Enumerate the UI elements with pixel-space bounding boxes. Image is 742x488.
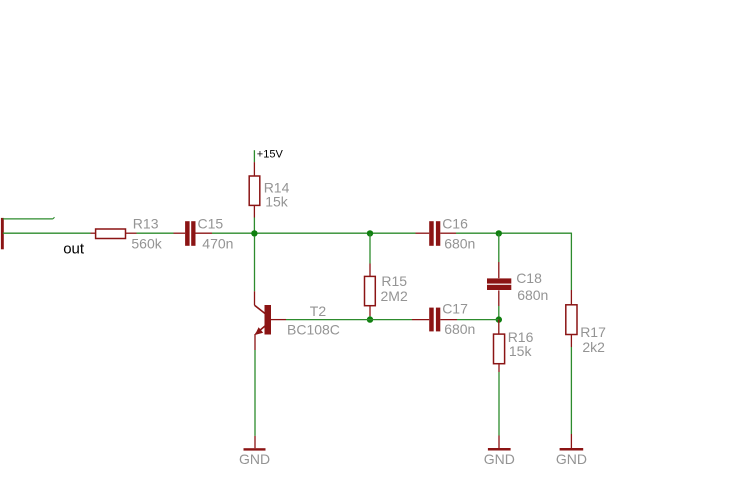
resistor R13 [96,229,126,239]
resistor R16 [494,334,505,364]
capacitor C18 [487,278,511,290]
svg-text:2M2: 2M2 [381,288,408,304]
node E junction [496,316,502,322]
svg-text:680n: 680n [444,321,475,337]
capacitor C17 [412,308,457,332]
svg-text:470n: 470n [202,236,233,252]
svg-text:560k: 560k [131,236,162,252]
wire C15 to C16 [212,232,416,234]
ground GND3 [560,448,584,451]
wire corner to R17 [570,233,572,305]
wire node B to R15 [369,233,371,276]
node A junction [251,230,257,236]
svg-text:15k: 15k [265,194,289,210]
wire stub top-left [3,217,55,219]
svg-text:R17: R17 [580,324,606,340]
resistor R15 [365,276,376,305]
svg-text:BC108C: BC108C [287,322,340,338]
svg-text:T2: T2 [310,303,327,319]
svg-text:R15: R15 [381,273,407,289]
transistor T2 [255,236,287,350]
wire main left [3,232,91,234]
node B junction [367,230,373,236]
connector pad left edge [1,218,4,249]
svg-text:15k: 15k [509,343,533,359]
svg-text:+15V: +15V [257,148,284,160]
svg-text:GND: GND [239,451,270,467]
svg-text:C18: C18 [516,270,542,286]
svg-text:680n: 680n [444,236,475,252]
+15V supply pin [253,150,255,176]
wire C17 to node E [457,319,499,321]
ground GND2 [488,448,511,451]
resistor R17 [566,305,577,335]
svg-text:C17: C17 [442,300,468,316]
capacitor C15 [174,221,213,246]
svg-text:out: out [63,241,85,258]
wire C18 to node D [498,290,500,319]
capacitor C16 [416,221,457,246]
resistor R13 pins [91,232,137,234]
svg-text:C16: C16 [442,215,468,231]
wire R17 to ground [570,335,572,449]
svg-text:GND: GND [484,451,515,467]
ground GND1 [244,448,266,450]
wire T2 base to C17 [286,319,412,321]
wire R15 to node D [369,306,371,320]
node D junction [367,316,373,322]
svg-text:680n: 680n [517,287,548,303]
wire R14 to node A [253,205,255,233]
svg-text:R13: R13 [133,215,159,231]
wire node E to R16 [498,320,500,335]
resistor R14 [249,176,260,205]
wire T2 emitter to ground [254,350,256,448]
node C junction [496,230,502,236]
svg-text:C15: C15 [198,215,224,231]
svg-text:2k2: 2k2 [582,339,605,355]
svg-text:GND: GND [556,451,587,467]
wire R13 to C15 [137,232,174,234]
wire node C to C18 [498,233,500,278]
wire R16 to ground [498,364,500,448]
wire C16 to node C and corner [456,232,571,234]
